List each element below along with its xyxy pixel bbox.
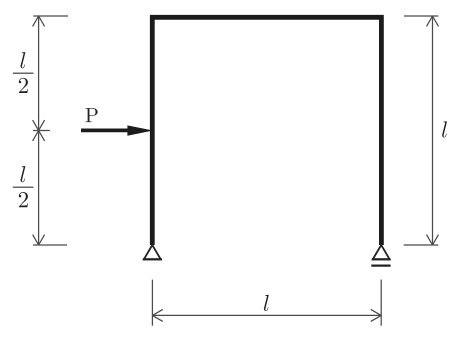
label l (right) bbox=[442, 121, 447, 137]
roller support (right, triangle + line) bbox=[371, 245, 390, 266]
left dim top arrowhead (up) bbox=[33, 16, 45, 26]
left dim bottom tick bbox=[33, 244, 67, 246]
right dim bottom arrowhead (down) bbox=[427, 235, 439, 245]
left dim mid tick bbox=[33, 130, 50, 132]
label P bbox=[86, 108, 98, 122]
frame (beam + two columns) bbox=[152, 17, 381, 245]
bottom dim right arrowhead bbox=[371, 309, 381, 321]
label l (bottom) bbox=[264, 295, 269, 311]
left dim bottom arrowhead (down) bbox=[33, 235, 45, 245]
right dimension line (vertical, l) bbox=[432, 16, 434, 245]
right dim top tick bbox=[404, 15, 438, 17]
pinned support (left, triangle) bbox=[143, 245, 162, 259]
label l/2 upper fraction bbox=[13, 52, 34, 93]
left dim top tick bbox=[33, 15, 68, 17]
left dim mid arrowheads (down + up, star) bbox=[33, 120, 45, 141]
label l/2 lower fraction bbox=[13, 166, 34, 207]
right dim bottom tick bbox=[404, 244, 439, 246]
force P arrow bbox=[81, 125, 153, 135]
right dim top arrowhead (up) bbox=[427, 16, 439, 26]
bottom extension line left bbox=[151, 280, 153, 326]
bottom extension line right bbox=[380, 280, 382, 326]
bottom dim left arrowhead bbox=[152, 309, 162, 321]
bottom dimension line (horizontal, l) bbox=[152, 314, 381, 316]
left dimension line (vertical, l/2 + l/2) bbox=[38, 16, 40, 245]
